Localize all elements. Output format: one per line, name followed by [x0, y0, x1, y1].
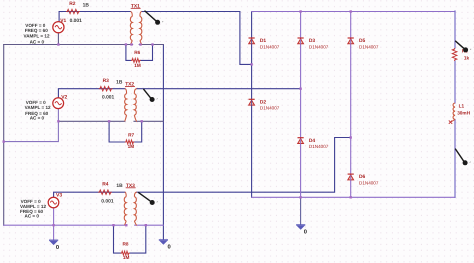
svg-text:0: 0 [304, 228, 307, 235]
resistor R2 [66, 1, 89, 14]
svg-text:D1: D1 [260, 38, 267, 44]
svg-text:0.001: 0.001 [101, 199, 114, 205]
voltage source V1 [53, 22, 64, 33]
svg-text:1B: 1B [83, 2, 90, 8]
wire TX2 primary bottom left segment [58, 120, 125, 122]
svg-text:D1N4007: D1N4007 [260, 44, 280, 49]
wire column A diodes D1 D2 [251, 12, 253, 198]
inductor L1 [449, 103, 471, 124]
wire phase2 V2 stem top [58, 89, 124, 98]
diode D6 [348, 174, 379, 185]
svg-text:D3: D3 [309, 38, 316, 44]
probe marker at R5 [455, 41, 471, 53]
probe marker at TX1 [145, 11, 164, 25]
ground 0 mid [296, 225, 307, 236]
svg-text:VAMPL = 12: VAMPL = 12 [24, 34, 50, 39]
V3 parameter text [20, 199, 46, 219]
WIRES-SLATE (primary returns) [4, 33, 164, 225]
svg-text:1B: 1B [116, 80, 123, 86]
wire R7 loop [109, 121, 142, 142]
probe marker at TX2 [143, 89, 157, 102]
wire ground bus bottom left segment [4, 224, 126, 226]
svg-text:0.001: 0.001 [102, 95, 115, 101]
svg-text:R2: R2 [69, 1, 76, 7]
svg-text:R7: R7 [128, 132, 134, 137]
svg-text:D1N4007: D1N4007 [309, 44, 329, 49]
resistor R7 [125, 132, 135, 149]
svg-text:1k: 1k [464, 56, 470, 61]
V2 parameter text [25, 100, 51, 120]
wire R8 loop [114, 225, 146, 253]
wire ground stem below bus [300, 197, 302, 225]
resistor R4 [98, 182, 123, 205]
resistor R8 [121, 242, 130, 261]
wire left rail [3, 45, 5, 226]
svg-text:1M: 1M [134, 63, 141, 68]
svg-text:VAMPL = 12: VAMPL = 12 [25, 105, 51, 110]
svg-text:R6: R6 [134, 50, 140, 55]
svg-text:D4: D4 [309, 138, 316, 144]
wire column C diodes D5 D6 [350, 12, 352, 198]
svg-text:D1N4007: D1N4007 [260, 106, 280, 111]
svg-text:D2: D2 [260, 99, 267, 105]
wire column B diodes D3 D4 [300, 12, 302, 198]
svg-text:1M: 1M [128, 144, 135, 149]
svg-text:D6: D6 [359, 174, 366, 180]
svg-text:R8: R8 [123, 242, 129, 247]
svg-text:D1N4007: D1N4007 [359, 44, 379, 49]
svg-text:0.001: 0.001 [70, 18, 83, 24]
probe marker at TX3 [138, 192, 158, 205]
diode D2 [249, 99, 280, 110]
wire ground bus bottom right segment [135, 224, 164, 226]
transformer TX3 [124, 183, 137, 225]
svg-text:D1N4007: D1N4007 [309, 144, 329, 149]
diode D3 [298, 38, 329, 49]
svg-text:30mH: 30mH [457, 111, 470, 116]
svg-text:AC = 0: AC = 0 [25, 213, 40, 218]
svg-text:1M: 1M [123, 255, 130, 260]
diode D4 [298, 138, 329, 149]
wire phase1 TX1 secondary to column A [142, 12, 252, 65]
wire phase3 TX3 secondary route to column C [137, 138, 351, 193]
svg-text:D1N4007: D1N4007 [359, 180, 379, 185]
wire secondary common rail [162, 45, 164, 240]
svg-text:1B: 1B [116, 183, 123, 189]
WIRES-MEDIUM (V2 return) [4, 108, 59, 141]
transformer TX1 [130, 3, 142, 44]
wire phase3 V3 stem top [54, 192, 125, 197]
wire bottom DC bus [252, 196, 455, 198]
wire R6 loop [126, 45, 153, 61]
ground 0 under common rail [159, 240, 171, 251]
svg-text:0: 0 [56, 244, 59, 251]
svg-text:VOFF = 0: VOFF = 0 [25, 23, 45, 28]
wire right rail [454, 11, 456, 197]
svg-text:R4: R4 [102, 182, 109, 188]
voltage source V3 [48, 193, 62, 208]
V1 parameter text [24, 23, 50, 45]
resistor R3 [99, 78, 123, 100]
svg-text:V2: V2 [61, 94, 67, 100]
svg-text:AC = 0: AC = 0 [30, 40, 45, 45]
svg-text:V3: V3 [56, 193, 62, 199]
V1 value label [60, 18, 82, 24]
wire phase1 V1 stem top [59, 12, 130, 22]
voltage source V2 [53, 94, 68, 108]
WIRES-NAVY [54, 12, 351, 254]
wire V2 stem bottom [4, 108, 59, 141]
ground 0 under V3 [49, 240, 59, 251]
diode D5 [348, 38, 379, 49]
resistor R5 [452, 48, 469, 61]
svg-text:D5: D5 [359, 38, 366, 44]
resistor R6 [131, 50, 141, 68]
svg-text:FREQ = 60: FREQ = 60 [25, 28, 49, 33]
wire V1 stem bottom [57, 33, 59, 45]
wire V3 stem bottom [53, 208, 55, 240]
probe marker at load [455, 149, 471, 166]
wire phase2 TX2 secondary to column B [137, 88, 301, 90]
wire V1 return right segment [139, 44, 163, 46]
transformer TX2 [125, 81, 137, 121]
svg-text:L1: L1 [459, 104, 465, 109]
wire TX2 primary bottom right segment [134, 120, 163, 122]
svg-text:R3: R3 [103, 78, 110, 84]
svg-text:0: 0 [168, 244, 171, 251]
diode D1 [249, 38, 280, 49]
wire V1 return left segment [4, 44, 133, 46]
wire top DC bus [252, 11, 455, 13]
svg-text:AC = 0: AC = 0 [30, 116, 45, 121]
